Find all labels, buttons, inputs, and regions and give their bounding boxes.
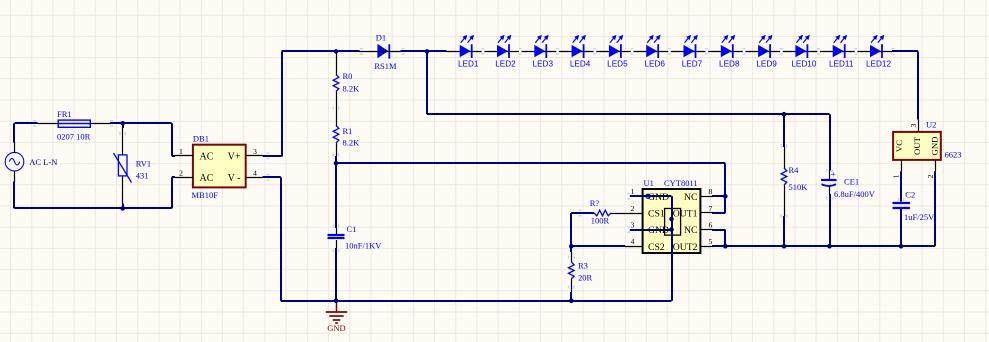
resistor R0 [333, 75, 339, 92]
svg-text:CS2: CS2 [648, 242, 665, 253]
LED LED7 [684, 35, 709, 58]
node junction [669, 227, 674, 232]
wire [481, 48, 484, 49]
node junction [782, 112, 787, 117]
svg-text:LED9: LED9 [756, 59, 777, 68]
svg-text:510K: 510K [789, 182, 809, 192]
wire [627, 226, 630, 227]
node junction [569, 299, 574, 304]
node junction [334, 49, 339, 54]
svg-text:+: + [831, 171, 836, 181]
svg-text:1uF/25V: 1uF/25V [904, 212, 935, 222]
svg-text:LED12: LED12 [866, 59, 891, 68]
wire [571, 279, 573, 292]
svg-text:OUT1: OUT1 [673, 209, 698, 220]
svg-text:V+: V+ [228, 152, 241, 163]
svg-text:LED11: LED11 [829, 59, 854, 68]
wire [336, 162, 725, 164]
wire [630, 195, 672, 197]
wire [14, 171, 16, 182]
svg-text:R?: R? [590, 198, 600, 208]
svg-text:R4: R4 [789, 165, 800, 175]
svg-text:5: 5 [709, 237, 713, 246]
svg-text:AC: AC [200, 173, 214, 184]
svg-text:LED3: LED3 [533, 59, 554, 68]
wire [892, 50, 918, 52]
svg-text:R0: R0 [343, 71, 353, 81]
svg-text:10nF/1KV: 10nF/1KV [345, 240, 382, 250]
wire [13, 123, 15, 142]
wire [579, 210, 582, 211]
LED LED10 [795, 35, 820, 58]
wire [401, 50, 447, 52]
svg-text:8.2K: 8.2K [343, 137, 361, 147]
svg-text:MB10F: MB10F [192, 190, 219, 200]
diode D1 [377, 44, 389, 59]
wire [826, 169, 827, 172]
svg-text:6623: 6623 [945, 150, 962, 160]
capacitor C2 [893, 203, 911, 208]
wire [110, 120, 113, 121]
svg-text:CS1: CS1 [648, 209, 665, 220]
svg-text:6: 6 [709, 221, 713, 230]
svg-text:4: 4 [253, 168, 257, 177]
wire [829, 187, 831, 195]
wire [611, 213, 643, 215]
wire [402, 48, 405, 49]
svg-text:NC: NC [684, 192, 697, 203]
node junction [334, 299, 339, 304]
svg-text:2: 2 [926, 175, 935, 179]
wire [171, 177, 173, 208]
wire [829, 114, 831, 170]
wire [783, 114, 785, 147]
LED LED12 [870, 35, 884, 58]
wire [263, 176, 281, 178]
wire [335, 163, 337, 228]
wire [705, 48, 708, 49]
svg-text:LED5: LED5 [607, 59, 628, 68]
wire [333, 225, 334, 228]
wire [668, 48, 671, 49]
wire [570, 213, 572, 252]
IC U1 CYT8011 [643, 189, 701, 253]
svg-text:100R: 100R [591, 215, 610, 225]
svg-text:2: 2 [179, 168, 183, 177]
bridge rectifier DB1 [193, 145, 246, 188]
wire [15, 207, 172, 209]
svg-text:NC: NC [684, 225, 697, 236]
wire [784, 185, 786, 216]
svg-text:1: 1 [631, 187, 635, 196]
wire [426, 51, 428, 114]
LED LED8 [721, 35, 746, 58]
svg-text:LED6: LED6 [644, 59, 665, 68]
wire [918, 120, 920, 132]
node junction [334, 161, 339, 166]
svg-text:LED8: LED8 [719, 59, 740, 68]
svg-text:3: 3 [631, 221, 635, 230]
wire [826, 197, 827, 200]
svg-text:20R: 20R [578, 273, 593, 283]
wire [171, 123, 173, 156]
svg-text:2: 2 [631, 204, 635, 213]
svg-text:431: 431 [136, 171, 149, 181]
resistor R1 [333, 126, 339, 144]
AC source [5, 152, 24, 171]
svg-text:7: 7 [709, 204, 713, 213]
svg-text:CYT8011: CYT8011 [664, 178, 698, 188]
svg-text:OUT: OUT [912, 136, 922, 155]
svg-text:AC: AC [200, 152, 214, 163]
svg-text:1: 1 [179, 147, 183, 156]
svg-text:LED1: LED1 [458, 59, 479, 68]
node junction [569, 244, 574, 249]
svg-text:GND: GND [648, 192, 669, 203]
svg-text:6.8uF/400V: 6.8uF/400V [834, 189, 876, 199]
wire [781, 145, 782, 148]
wire [333, 154, 334, 157]
svg-text:AC L-N: AC L-N [29, 157, 57, 167]
wire [122, 123, 124, 128]
wire [33, 120, 36, 121]
wire [780, 48, 783, 49]
svg-text:LED4: LED4 [570, 59, 591, 68]
resistor R3 [569, 262, 575, 279]
wire [568, 256, 569, 259]
wire [781, 215, 782, 218]
wire [571, 252, 573, 262]
svg-text:R3: R3 [578, 261, 588, 271]
wire [336, 143, 338, 156]
node junction [120, 121, 125, 126]
wire [712, 212, 725, 214]
svg-text:0207 10R: 0207 10R [57, 132, 91, 142]
capacitor C1 [328, 235, 345, 238]
capacitor CE1 [821, 171, 837, 187]
resistor R4 [781, 168, 787, 185]
wire [246, 155, 263, 157]
node junction [723, 244, 728, 249]
wire [360, 48, 363, 49]
LED LED1 [460, 35, 485, 58]
wire [333, 107, 334, 110]
svg-text:CE1: CE1 [844, 176, 859, 186]
IC U2 6623 [893, 132, 941, 160]
node junction [899, 244, 904, 249]
wire [38, 123, 59, 125]
fuse FR1 [58, 120, 90, 127]
wire [593, 48, 596, 49]
ground GND [326, 301, 347, 323]
svg-text:V -: V - [228, 173, 241, 184]
wire [700, 196, 713, 198]
svg-text:4: 4 [631, 237, 635, 246]
wire [900, 209, 902, 247]
wire [898, 198, 899, 201]
wire [281, 300, 672, 302]
svg-text:GND: GND [327, 323, 345, 333]
node junction [827, 244, 832, 249]
svg-text:U2: U2 [926, 120, 936, 130]
wire [336, 51, 338, 74]
wire [360, 51, 401, 53]
LED LED5 [609, 35, 634, 58]
node U1 pin1 circle [646, 194, 650, 198]
svg-text:GND: GND [929, 136, 939, 155]
svg-text:1: 1 [891, 175, 900, 179]
wire [901, 160, 903, 171]
wire [935, 160, 937, 171]
wire [630, 229, 672, 231]
wire [571, 245, 625, 247]
node junction [120, 206, 125, 211]
wire [671, 196, 673, 301]
svg-text:RV1: RV1 [136, 159, 151, 169]
svg-text:LED2: LED2 [495, 59, 516, 68]
svg-text:OUT2: OUT2 [673, 242, 698, 253]
wire [336, 92, 338, 126]
wire [519, 48, 522, 49]
svg-text:C2: C2 [905, 190, 915, 200]
wire [743, 48, 746, 49]
svg-text:DB1: DB1 [193, 134, 209, 144]
svg-text:R1: R1 [343, 126, 353, 136]
wire [631, 48, 634, 49]
wire [568, 286, 569, 289]
wire [333, 249, 334, 252]
wire [700, 246, 713, 248]
svg-text:VC: VC [894, 140, 904, 152]
node junction [425, 49, 430, 54]
wire [892, 48, 895, 49]
wire [571, 212, 594, 214]
svg-text:C1: C1 [347, 224, 357, 234]
wire [854, 48, 857, 49]
node junction [782, 244, 787, 249]
svg-text:D1: D1 [376, 33, 386, 43]
LED LED4 [572, 35, 597, 58]
wire [267, 152, 270, 153]
resistor R? [594, 210, 611, 216]
svg-text:3: 3 [253, 147, 257, 156]
node junction [669, 217, 674, 222]
node junction [723, 194, 728, 199]
svg-text:LED10: LED10 [791, 59, 816, 68]
LED LED2 [497, 35, 522, 58]
svg-text:8: 8 [709, 187, 713, 196]
svg-text:FR1: FR1 [57, 109, 72, 119]
wire [447, 51, 893, 53]
wire [15, 122, 38, 124]
wire [263, 155, 282, 157]
wire [282, 50, 360, 52]
wire [119, 132, 120, 135]
svg-text:LED7: LED7 [682, 59, 703, 68]
svg-text:8.2K: 8.2K [343, 83, 361, 93]
LED LED3 [534, 35, 559, 58]
wire [817, 48, 820, 49]
svg-text:RS1M: RS1M [374, 61, 397, 71]
wire [700, 229, 713, 231]
svg-text:U1: U1 [644, 178, 654, 188]
wire [336, 240, 338, 248]
svg-text:3: 3 [909, 124, 918, 128]
wire [556, 48, 559, 49]
varistor RV1 [114, 153, 132, 183]
LED LED9 [758, 35, 783, 58]
wire [267, 174, 270, 175]
LED LED11 [833, 35, 858, 58]
wire [246, 177, 263, 179]
wire [122, 176, 124, 204]
LED LED6 [646, 35, 671, 58]
wire [627, 193, 630, 194]
